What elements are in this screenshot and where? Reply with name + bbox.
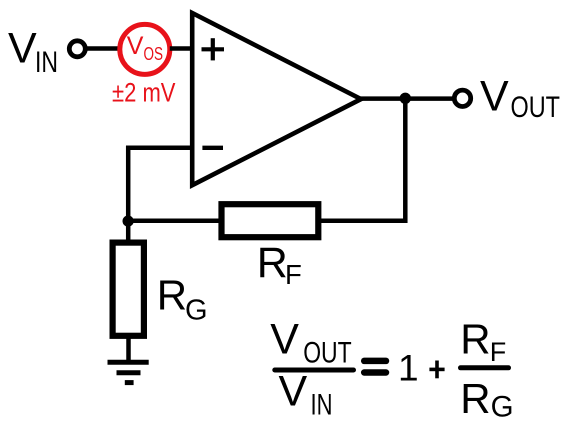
wire to inverting input	[126, 146, 192, 151]
label RG	[157, 271, 208, 326]
svg-text:1: 1	[398, 348, 419, 389]
svg-text:OS: OS	[144, 43, 164, 64]
junction output node	[400, 93, 411, 104]
plus sign	[429, 368, 444, 372]
svg-text:±2 mV: ±2 mV	[112, 77, 176, 107]
svg-text:G: G	[185, 294, 208, 326]
svg-text:IN: IN	[311, 389, 333, 422]
fraction bar right	[461, 365, 509, 370]
wire offset source to op-amp	[170, 46, 192, 51]
equals sign	[364, 358, 386, 365]
wire feedback vertical from output	[403, 99, 408, 223]
label RF	[257, 239, 302, 290]
node VOUT label	[480, 73, 560, 125]
svg-text:V: V	[127, 32, 144, 60]
node VIN label	[8, 24, 58, 79]
svg-text:V: V	[480, 73, 509, 121]
resistor RF	[222, 204, 319, 237]
offset source VOS circle	[120, 24, 170, 74]
pin + (noninverting input)	[202, 38, 225, 60]
svg-text:IN: IN	[35, 46, 58, 79]
wire node down to RG	[126, 219, 131, 243]
pin − (inverting input)	[202, 146, 223, 150]
svg-text:V: V	[270, 316, 299, 364]
svg-text:R: R	[257, 239, 288, 287]
label VOS	[127, 32, 163, 64]
wire RG to ground	[126, 336, 131, 362]
wire input to offset source	[87, 46, 122, 51]
fraction bar left	[275, 368, 354, 373]
wire output	[359, 96, 455, 101]
junction feedback node	[123, 216, 134, 227]
svg-text:G: G	[491, 391, 514, 424]
svg-text:R: R	[157, 271, 187, 318]
wire node up	[126, 146, 131, 223]
svg-text:R: R	[460, 316, 490, 363]
op-amp U1	[192, 13, 361, 185]
formula gain equation	[270, 316, 513, 424]
svg-text:F: F	[490, 337, 507, 367]
svg-text:F: F	[285, 259, 302, 290]
wire feedback right segment	[318, 219, 408, 224]
wire feedback left segment	[126, 219, 222, 224]
svg-text:R: R	[460, 375, 490, 422]
svg-text:OUT: OUT	[511, 91, 561, 124]
terminal VIN	[69, 41, 85, 57]
resistor RG	[113, 243, 144, 336]
terminal VOUT	[454, 90, 470, 106]
ground	[108, 362, 149, 382]
svg-text:OUT: OUT	[303, 336, 352, 369]
svg-text:V: V	[8, 24, 37, 72]
svg-text:V: V	[279, 367, 308, 415]
